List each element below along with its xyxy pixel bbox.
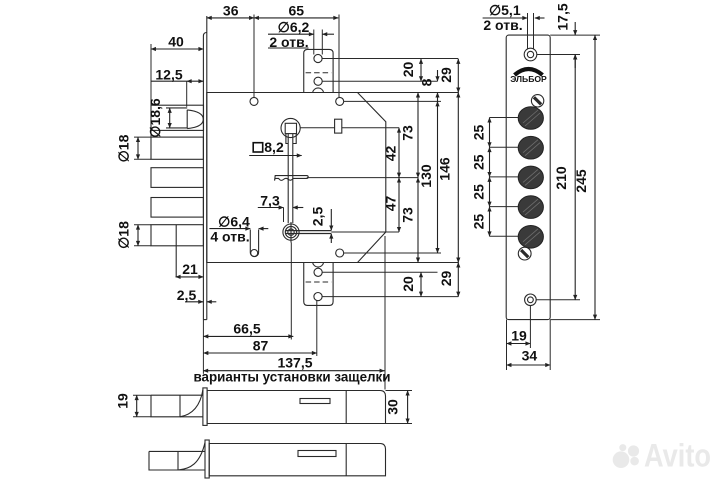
svg-text:∅5,1: ∅5,1 [489,2,521,18]
svg-text:210: 210 [553,166,569,190]
svg-text:40: 40 [168,33,184,49]
svg-text:137,5: 137,5 [277,354,312,370]
svg-text:25: 25 [471,214,487,230]
svg-text:∅6,2: ∅6,2 [278,19,310,35]
svg-text:73: 73 [400,207,416,223]
svg-text:2 отв.: 2 отв. [269,34,308,50]
svg-text:36: 36 [223,3,239,19]
svg-text:Avito: Avito [644,438,711,474]
svg-text:7,3: 7,3 [260,192,280,208]
svg-text:∅18: ∅18 [116,134,132,162]
svg-text:19: 19 [511,328,527,344]
svg-text:21: 21 [182,261,198,277]
svg-text:245: 245 [573,169,589,193]
svg-text:25: 25 [471,184,487,200]
svg-text:42: 42 [383,146,399,162]
svg-text:34: 34 [522,347,538,363]
svg-text:варианты установки защелки: варианты установки защелки [194,370,391,385]
svg-text:25: 25 [471,125,487,141]
svg-text:73: 73 [400,125,416,141]
svg-text:146: 146 [437,157,453,181]
svg-text:17,5: 17,5 [555,3,571,30]
svg-text:4 отв.: 4 отв. [210,228,249,244]
svg-text:∅18: ∅18 [116,221,132,249]
svg-text:65: 65 [289,3,305,19]
svg-text:2,5: 2,5 [310,207,326,227]
svg-text:8,2: 8,2 [264,139,284,155]
svg-text:8: 8 [419,78,435,86]
svg-text:87: 87 [253,338,269,354]
svg-text:25: 25 [471,154,487,170]
svg-text:66,5: 66,5 [233,321,260,337]
svg-text:2,5: 2,5 [177,287,197,303]
svg-text:29: 29 [438,67,454,83]
svg-text:20: 20 [400,62,416,78]
svg-text:130: 130 [418,164,434,188]
svg-text:29: 29 [438,271,454,287]
svg-text:47: 47 [383,196,399,212]
svg-text:ЭЛЬБОР: ЭЛЬБОР [510,74,547,84]
svg-text:2 отв.: 2 отв. [483,17,522,33]
svg-text:∅18,6: ∅18,6 [147,98,163,138]
svg-text:∅6,4: ∅6,4 [218,213,250,229]
svg-text:12,5: 12,5 [155,66,182,82]
svg-text:30: 30 [385,399,401,415]
svg-text:20: 20 [400,276,416,292]
svg-text:19: 19 [115,393,131,409]
